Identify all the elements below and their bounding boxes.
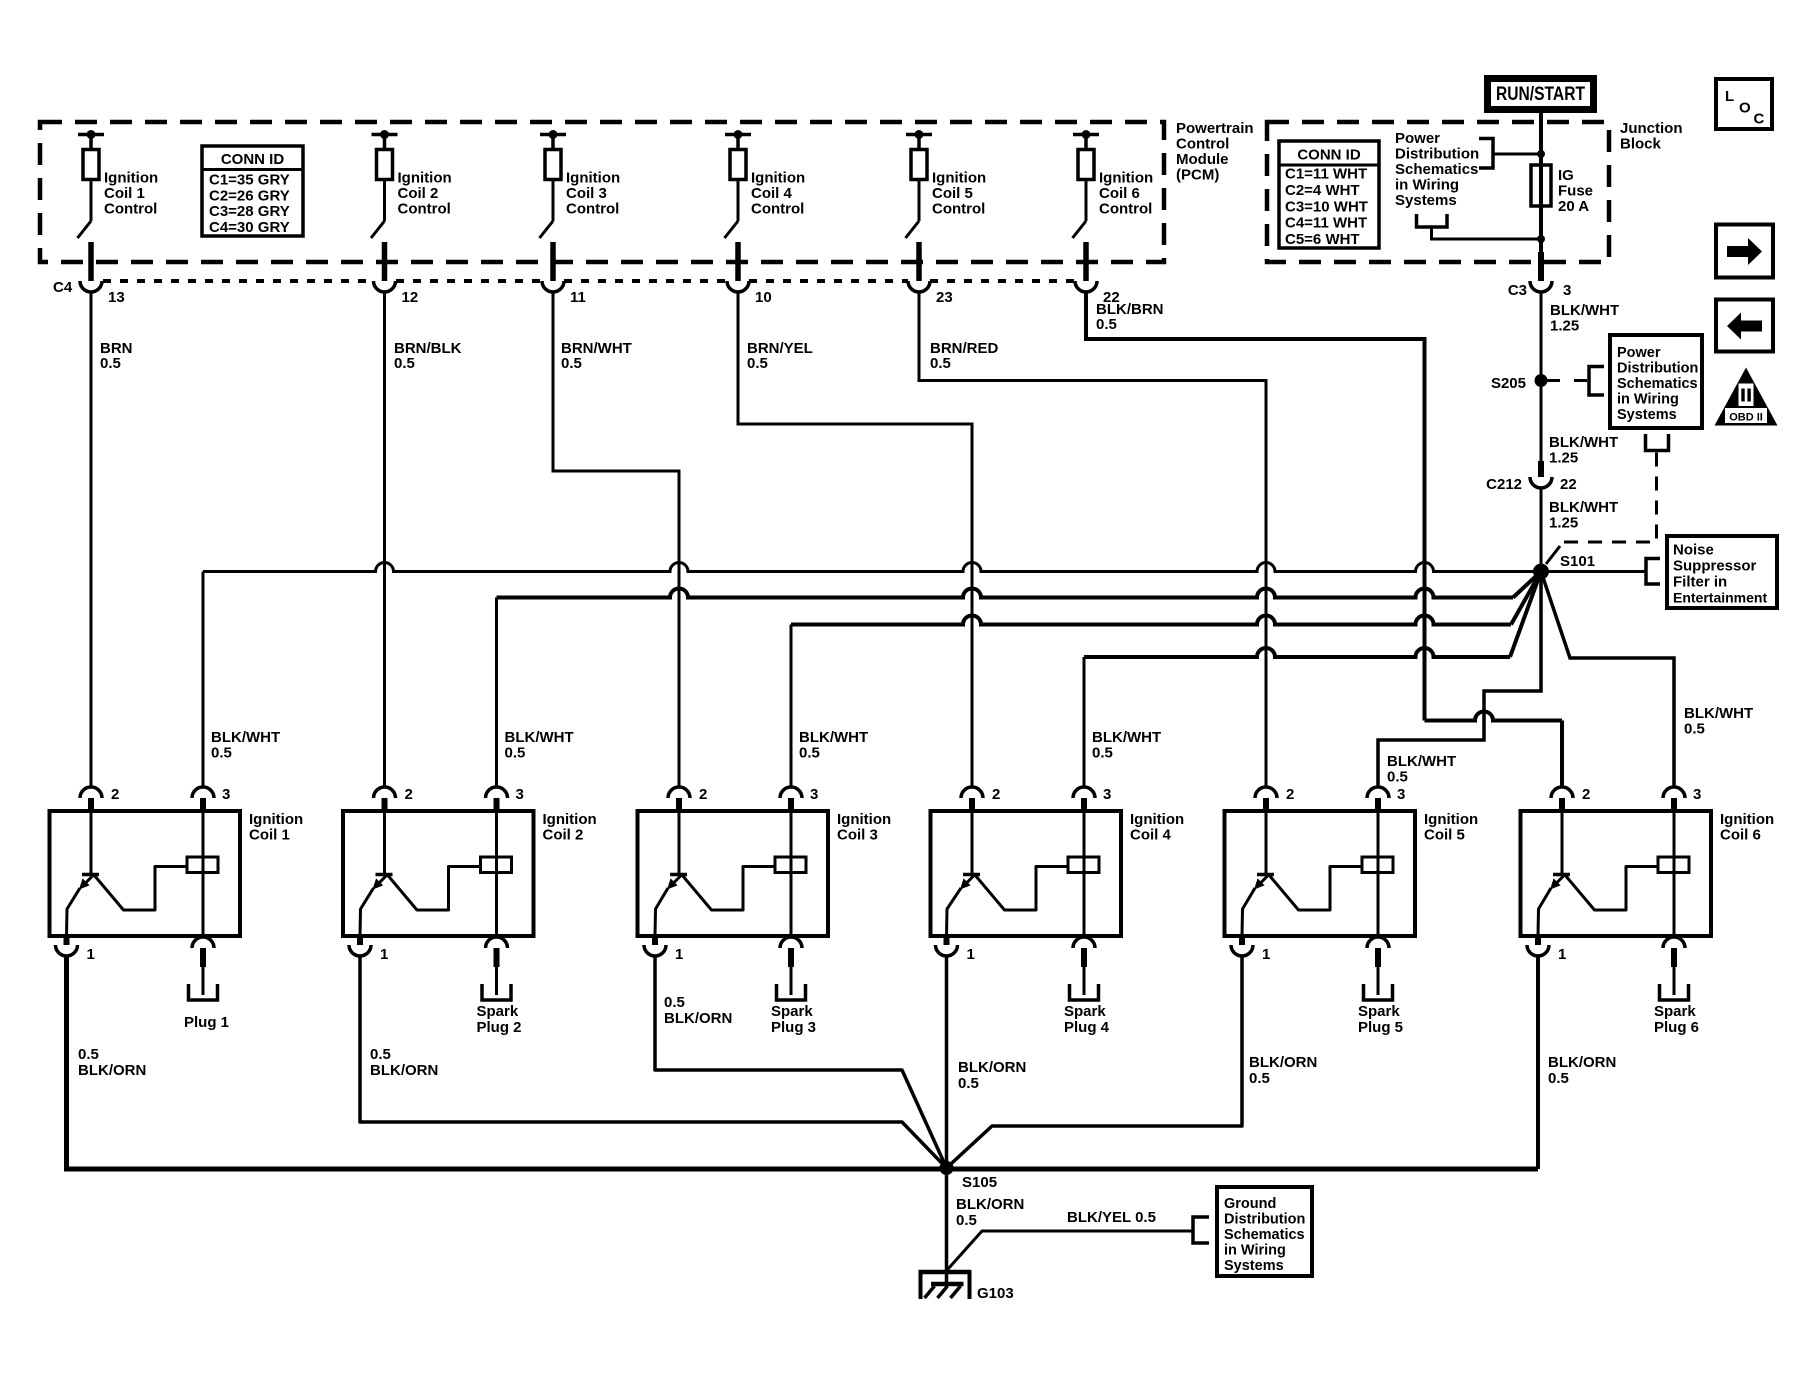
svg-text:Schematics: Schematics [1395,161,1478,178]
label Spark Plug 2 [477,1003,522,1036]
svg-text:Ignition: Ignition [1130,811,1184,828]
svg-text:C4: C4 [53,279,73,296]
spark plug connector (coil 2) [486,937,508,995]
svg-text:BLK/ORN: BLK/ORN [78,1062,146,1079]
PCM coil 1 driver supply bar [78,130,104,150]
svg-text:Ignition: Ignition [398,170,452,187]
svg-text:0.5: 0.5 [78,1046,99,1063]
svg-text:L: L [1725,88,1734,105]
PCM coil 4 driver supply bar [725,130,751,150]
connector coil 2 pin 3 [486,786,524,811]
label BLK/BRN 0.5 [1096,301,1164,333]
svg-text:0.5: 0.5 [1548,1070,1569,1087]
bracket below Power Distribution box (dashed link) [1646,434,1669,451]
svg-text:BLK/WHT: BLK/WHT [799,729,868,746]
connector coil 6 pin 1 [1527,936,1566,963]
svg-text:BLK/WHT: BLK/WHT [211,729,280,746]
wire BRN 0.5 pin 13 to coil 1 pin 2 [90,292,93,787]
connector coil 5 pin 3 [1367,786,1405,811]
label BLK/ORN 0.5 (coil 6) [1548,1054,1616,1087]
bracket to Power Distribution (lower) [1417,214,1546,243]
transistor driver (coil 4) [947,811,1069,936]
RUN/START box [1488,79,1594,110]
svg-text:0.5: 0.5 [1092,745,1113,762]
dashed wire S101 to Power Distribution bracket [1546,452,1657,564]
arrow left symbol [1716,300,1773,352]
connector C4 label [53,279,73,296]
wire BLK/WHT 0.5 ignition coil 4 pin 3 to S101 (bus 4) [1084,572,1541,788]
svg-text:Schematics: Schematics [1617,376,1698,392]
wire BLK/BRN 0.5 pin 22 to coil 6 pin 2 [1086,292,1562,787]
svg-text:3: 3 [1563,282,1571,299]
svg-text:Ignition: Ignition [566,170,620,187]
wire BLK/ORN 0.5 coil 3 pin 1 to S105 [655,956,947,1168]
svg-text:Coil 5: Coil 5 [1424,827,1465,844]
ignition coil 6 box [1521,811,1712,936]
arrow right symbol [1716,225,1773,278]
spark plug connector (coil 6) [1663,937,1685,995]
wire BLK/ORN 0.5 S105 to G103 [947,1168,1025,1273]
connector coil 2 pin 1 [349,936,388,963]
svg-text:1: 1 [380,946,388,963]
svg-text:0.5: 0.5 [100,355,121,372]
PCM label [1176,120,1254,184]
svg-text:CONN ID: CONN ID [221,151,285,168]
connector C4 pin 10 [727,281,772,306]
svg-text:Coil 3: Coil 3 [837,827,878,844]
svg-text:Ground: Ground [1224,1196,1276,1212]
svg-text:C2=26 GRY: C2=26 GRY [209,187,290,204]
spark plug connector (coil 4) [1073,937,1095,995]
svg-text:Distribution: Distribution [1224,1212,1305,1228]
svg-text:Noise: Noise [1673,542,1714,559]
svg-text:in Wiring: in Wiring [1617,392,1679,408]
svg-text:0.5: 0.5 [799,745,820,762]
switch contact stub pin 11 [550,242,556,281]
svg-text:Plug 5: Plug 5 [1358,1019,1403,1036]
svg-text:Control: Control [1099,201,1152,218]
transistor driver (coil 3) [655,811,775,936]
ignition coil 3 box [638,811,829,936]
ignition coil 5 box [1225,811,1416,936]
coil 3 primary winding [775,811,806,936]
connector C4 pin 22 [1075,281,1120,306]
svg-text:BLK/ORN: BLK/ORN [1548,1054,1616,1071]
label Ignition Coil 1 Control [104,170,158,218]
connector coil 5 pin 1 [1231,936,1270,963]
svg-text:Coil 4: Coil 4 [751,185,792,202]
wire RUN/START to fuse [1539,112,1543,165]
wire BLK/ORN 0.5 coil 1 pin 1 to S105 (main ground bus) [67,956,1539,1169]
wire BRN/WHT 0.5 pin 11 to coil 3 pin 2 [553,292,679,787]
coil 6 primary winding [1658,811,1689,936]
label BLK/WHT 1.25 (S205 to C212) [1549,434,1618,467]
svg-text:2: 2 [1286,786,1294,803]
Ground Distribution Schematics box [1217,1187,1312,1276]
resistor (Ignition Coil 3 Control driver) [545,150,561,180]
Noise Suppressor Filter in Entertainment box [1667,536,1777,608]
bracket to Ground Distribution box [1193,1217,1209,1243]
wire BLK/WHT 0.5 ignition coil 1 pin 3 to S101 (bus 1) [203,563,1534,788]
label Plug 1 [184,1014,229,1031]
label BLK/ORN 0.5 (coil 5) [1249,1054,1317,1087]
wire BRN/BLK 0.5 pin 12 to coil 2 pin 2 [383,292,386,787]
switch (Ignition Coil 1 Control) [78,180,92,239]
label Ignition Coil 1 [249,811,303,844]
svg-text:0.5: 0.5 [394,355,415,372]
transistor driver (coil 2) [360,811,481,936]
svg-text:C3: C3 [1508,282,1527,299]
label Ignition Coil 4 [1130,811,1184,844]
transistor driver (coil 5) [1242,811,1362,936]
svg-text:0.5: 0.5 [664,994,685,1011]
svg-text:Control: Control [932,201,985,218]
svg-text:0.5: 0.5 [958,1075,979,1092]
OBD II triangle symbol [1715,368,1778,426]
connector coil 6 pin 2 [1551,786,1590,811]
svg-text:Coil 3: Coil 3 [566,185,607,202]
wire BLK/WHT 0.5 ignition coil 3 pin 3 to S101 (bus 3) [791,572,1541,788]
wire BRN/YEL 0.5 pin 10 to coil 4 pin 2 [738,292,972,787]
connector C3 pin 3 [1508,281,1572,299]
ground G103 [919,1270,1014,1302]
svg-text:C3=28 GRY: C3=28 GRY [209,203,290,220]
PCM module box (Powertrain Control Module) [40,122,1164,262]
label Spark Plug 6 [1654,1003,1699,1036]
connector coil 3 pin 1 [644,936,683,963]
connector coil 1 pin 3 [192,786,230,811]
label BLK/ORN 0.5 (coil 3) [664,994,732,1027]
connector coil 5 pin 2 [1255,786,1294,811]
svg-text:10: 10 [755,289,772,306]
svg-text:S105: S105 [962,1174,997,1191]
svg-text:2: 2 [992,786,1000,803]
CONN ID table (Junction Block) [1279,141,1379,248]
svg-text:2: 2 [1582,786,1590,803]
svg-text:Ignition: Ignition [543,811,597,828]
fuse IG Fuse 20 A [1531,165,1593,215]
svg-text:BLK/WHT: BLK/WHT [1092,729,1161,746]
connector coil 4 pin 3 [1073,786,1111,811]
switch contact stub pin 10 [735,242,741,281]
svg-text:0.5: 0.5 [747,355,768,372]
PCM coil 6 driver supply bar [1073,130,1099,150]
svg-text:BLK/WHT: BLK/WHT [1684,705,1753,722]
svg-text:Plug 4: Plug 4 [1064,1019,1110,1036]
svg-text:3: 3 [810,786,818,803]
svg-text:BLK/YEL 0.5: BLK/YEL 0.5 [1067,1209,1156,1226]
label Spark Plug 3 [771,1003,816,1036]
resistor (Ignition Coil 6 Control driver) [1078,150,1094,180]
svg-text:Powertrain: Powertrain [1176,120,1254,137]
label Ignition Coil 5 [1424,811,1478,844]
svg-text:Coil 1: Coil 1 [104,185,145,202]
Junction Block dashed box [1267,122,1609,262]
svg-text:Coil 2: Coil 2 [398,185,439,202]
connector coil 3 pin 3 [780,786,818,811]
svg-text:3: 3 [1103,786,1111,803]
coil 4 primary winding [1068,811,1099,936]
svg-text:2: 2 [111,786,119,803]
svg-text:BLK/WHT: BLK/WHT [1549,499,1618,516]
svg-text:S101: S101 [1560,553,1595,570]
svg-text:Module: Module [1176,151,1229,168]
svg-text:0.5: 0.5 [1684,721,1705,738]
svg-text:C2=4 WHT: C2=4 WHT [1285,182,1360,199]
svg-text:Spark: Spark [771,1003,813,1020]
connector C4 pin 11 [542,281,586,306]
svg-text:BLK/WHT: BLK/WHT [1550,302,1619,319]
svg-text:1.25: 1.25 [1550,318,1579,335]
wire S101 to Noise Suppressor bracket [1541,559,1660,585]
connector coil 1 pin 2 [80,786,119,811]
svg-text:1: 1 [967,946,975,963]
svg-text:Filter in: Filter in [1673,574,1727,591]
svg-text:Ignition: Ignition [1720,811,1774,828]
label BLK/WHT 0.5 (coil 6) [1684,705,1753,738]
svg-text:Power: Power [1617,345,1661,361]
svg-text:20 A: 20 A [1558,198,1589,215]
svg-text:0.5: 0.5 [1096,316,1117,333]
svg-text:O: O [1739,100,1751,117]
switch contact stub pin 23 [916,242,922,281]
label BLK/ORN 0.5 (coil 1) [78,1046,146,1079]
svg-text:Ignition: Ignition [104,170,158,187]
svg-text:22: 22 [1560,476,1577,493]
bracket S205 to Power Distribution box [1547,367,1604,396]
svg-text:Fuse: Fuse [1558,183,1593,200]
svg-text:S205: S205 [1491,375,1526,392]
spark plug 6 symbol [1660,984,1689,1000]
svg-text:3: 3 [1397,786,1405,803]
wire BLK/WHT 0.5 S101 to ignition coil 5 pin 3 [1378,572,1541,788]
label Ignition Coil 2 Control [398,170,452,218]
svg-text:C: C [1754,111,1765,128]
svg-text:1.25: 1.25 [1549,450,1578,467]
wire BLK/WHT 0.5 S101 to ignition coil 6 pin 3 [1541,572,1674,788]
label BRN/RED 0.5 [930,340,999,372]
svg-text:23: 23 [936,289,953,306]
spark plug connector (coil 1) [192,937,214,995]
svg-text:2: 2 [405,786,413,803]
svg-text:Plug 6: Plug 6 [1654,1019,1699,1036]
svg-text:Spark: Spark [1654,1003,1696,1020]
wire BLK/WHT 0.5 ignition coil 2 pin 3 to S101 (bus 2) [497,572,1542,788]
label Ignition Coil 6 Control [1099,170,1153,218]
svg-text:IG: IG [1558,167,1574,184]
Power Distribution Schematics box (right) [1610,335,1702,428]
svg-text:1: 1 [1262,946,1270,963]
connector coil 2 pin 2 [374,786,413,811]
switch (Ignition Coil 4 Control) [725,180,739,239]
svg-text:Junction: Junction [1620,120,1683,137]
svg-text:0.5: 0.5 [211,745,232,762]
svg-text:3: 3 [222,786,230,803]
svg-text:Schematics: Schematics [1224,1227,1305,1243]
connector coil 4 pin 1 [936,936,975,963]
svg-text:Power: Power [1395,130,1440,147]
svg-text:Ignition: Ignition [249,811,303,828]
switch contact stub pin 13 [88,242,94,281]
switch (Ignition Coil 6 Control) [1073,180,1087,239]
spark plug 4 symbol [1070,984,1099,1000]
svg-text:(PCM): (PCM) [1176,167,1219,184]
svg-text:Spark: Spark [477,1003,519,1020]
svg-text:Systems: Systems [1617,407,1677,423]
label BLK/WHT 0.5 (coil 3) [799,729,868,762]
connector C4 pin 12 [374,281,419,306]
svg-text:Systems: Systems [1395,192,1457,209]
svg-text:C1=11 WHT: C1=11 WHT [1285,166,1367,183]
label Ignition Coil 3 [837,811,891,844]
svg-text:3: 3 [1693,786,1701,803]
connector coil 3 pin 2 [668,786,707,811]
svg-text:Block: Block [1620,136,1662,153]
connector coil 4 pin 2 [961,786,1000,811]
svg-text:Plug 3: Plug 3 [771,1019,816,1036]
svg-text:Ignition: Ignition [1099,170,1153,187]
wire BLK/ORN 0.5 coil 6 pin 1 [1536,956,1540,1169]
PCM coil 2 driver supply bar [372,130,398,150]
svg-text:13: 13 [108,289,125,306]
coil 1 primary winding [187,811,218,936]
svg-text:C4=30 GRY: C4=30 GRY [209,219,290,236]
svg-text:0.5: 0.5 [1387,769,1408,786]
wire BLK/WHT 1.25 C3 to S205 [1541,292,1619,461]
connector C4 boundary dotted line [103,279,1075,283]
coil 2 primary winding [481,811,512,936]
resistor (Ignition Coil 2 Control driver) [377,150,393,180]
transistor driver (coil 1) [67,811,188,936]
resistor (Ignition Coil 5 Control driver) [911,150,927,180]
switch (Ignition Coil 2 Control) [371,180,385,239]
ignition coil 2 box [343,811,534,936]
svg-text:Control: Control [566,201,619,218]
label BLK/ORN 0.5 (coil 4) [958,1059,1026,1092]
svg-text:Plug 2: Plug 2 [477,1019,522,1036]
svg-text:Control: Control [751,201,804,218]
svg-text:Coil 1: Coil 1 [249,827,290,844]
wire BLK/ORN 0.5 coil 5 pin 1 to S105 [947,956,1243,1168]
svg-text:12: 12 [402,289,419,306]
svg-text:RUN/START: RUN/START [1496,84,1585,105]
svg-text:Coil 2: Coil 2 [543,827,584,844]
Junction Block label [1620,120,1683,153]
label BLK/WHT 0.5 (coil 2) [505,729,574,762]
svg-text:C4=11 WHT: C4=11 WHT [1285,215,1367,232]
svg-text:Control: Control [104,201,157,218]
wire BLK/YEL 0.5 to Ground Distribution [948,1209,1193,1269]
label BLK/WHT 0.5 (coil 5) [1387,753,1456,786]
wire BRN/RED 0.5 pin 23 to coil 5 pin 2 [919,292,1266,787]
svg-text:Entertainment: Entertainment [1673,590,1767,606]
svg-text:1: 1 [87,946,95,963]
svg-text:Suppressor: Suppressor [1673,558,1757,575]
label Ignition Coil 3 Control [566,170,620,218]
svg-text:BLK/ORN: BLK/ORN [664,1010,732,1027]
svg-text:C5=6 WHT: C5=6 WHT [1285,231,1360,248]
PCM coil 3 driver supply bar [540,130,566,150]
svg-text:C212: C212 [1486,476,1522,493]
svg-text:BLK/ORN: BLK/ORN [956,1196,1024,1213]
svg-text:Control: Control [398,201,451,218]
connector coil 1 pin 1 [56,936,95,963]
svg-text:0.5: 0.5 [505,745,526,762]
label Ignition Coil 5 Control [932,170,986,218]
wire fuse to C3 [1538,206,1544,281]
label BRN/YEL 0.5 [747,340,813,372]
label BRN/BLK 0.5 [394,340,462,372]
svg-text:OBD II: OBD II [1729,412,1763,424]
label BRN/WHT 0.5 [561,340,632,372]
PCM coil 5 driver supply bar [906,130,932,150]
transistor driver (coil 6) [1538,811,1658,936]
svg-text:0.5: 0.5 [1249,1070,1270,1087]
svg-text:Distribution: Distribution [1617,361,1698,377]
ignition coil 1 box [50,811,241,936]
svg-text:11: 11 [570,289,586,306]
splice S105 [940,1161,998,1191]
svg-text:0.5: 0.5 [561,355,582,372]
wire BLK/ORN 0.5 coil 2 pin 1 to S105 [360,956,947,1168]
svg-text:BLK/WHT: BLK/WHT [1549,434,1618,451]
svg-text:BLK/ORN: BLK/ORN [958,1059,1026,1076]
ignition coil 4 box [931,811,1122,936]
svg-text:Coil 6: Coil 6 [1720,827,1761,844]
svg-text:G103: G103 [977,1285,1014,1302]
spark plug 3 symbol [777,984,806,1000]
svg-text:in Wiring: in Wiring [1395,177,1459,194]
label Ignition Coil 6 [1720,811,1774,844]
label Spark Plug 5 [1358,1003,1403,1036]
switch contact stub pin 22 [1083,242,1089,281]
label BLK/ORN 0.5 (coil 2) [370,1046,438,1079]
wire BLK/ORN 0.5 coil 4 pin 1 to S105 [945,956,949,1168]
spark plug 2 symbol [482,984,511,1000]
svg-text:1.25: 1.25 [1549,515,1578,532]
spark plug 5 symbol [1364,984,1393,1000]
resistor (Ignition Coil 4 Control driver) [730,150,746,180]
svg-text:Ignition: Ignition [837,811,891,828]
switch (Ignition Coil 5 Control) [906,180,920,239]
svg-text:1: 1 [675,946,683,963]
svg-text:0.5: 0.5 [956,1212,977,1229]
connector C212 pin 22 [1486,461,1577,493]
svg-text:CONN ID: CONN ID [1297,147,1361,164]
wire BLK/WHT 1.25 C212 to S101 [1541,488,1618,565]
label BLK/WHT 0.5 (coil 1) [211,729,280,762]
coil 5 primary winding [1362,811,1393,936]
svg-text:Control: Control [1176,136,1229,153]
label BLK/WHT 0.5 (coil 4) [1092,729,1161,762]
svg-text:Distribution: Distribution [1395,146,1479,163]
svg-text:2: 2 [699,786,707,803]
svg-text:in Wiring: in Wiring [1224,1243,1286,1259]
bracket from Power Distribution label [1479,139,1545,169]
svg-text:0.5: 0.5 [930,355,951,372]
svg-text:0.5: 0.5 [370,1046,391,1063]
svg-text:Systems: Systems [1224,1258,1284,1274]
svg-text:BLK/ORN: BLK/ORN [370,1062,438,1079]
label BRN 0.5 [100,340,133,372]
svg-text:C3=10 WHT: C3=10 WHT [1285,198,1368,215]
svg-text:BLK/WHT: BLK/WHT [1387,753,1456,770]
CONN ID table (PCM C4) [202,146,303,236]
svg-text:C1=35 GRY: C1=35 GRY [209,172,290,189]
svg-text:3: 3 [516,786,524,803]
switch (Ignition Coil 3 Control) [540,180,554,239]
svg-text:Ignition: Ignition [751,170,805,187]
